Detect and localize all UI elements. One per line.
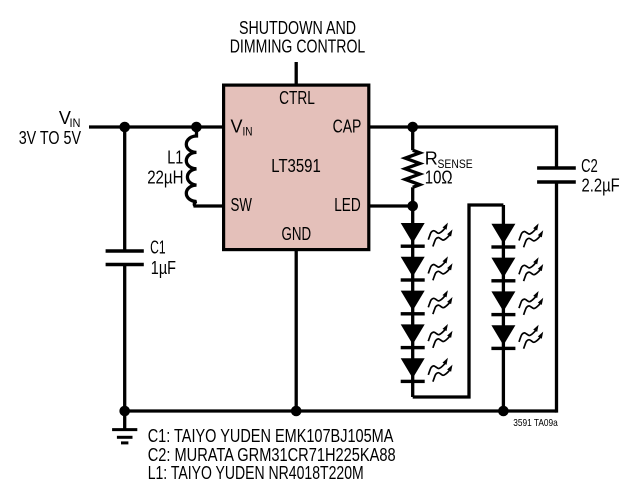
wire C2 top (555, 125, 558, 168)
emission arrows D6 (519, 223, 543, 247)
wire SW (194, 204, 224, 207)
wire C2 bottom (555, 182, 558, 413)
node VIN input label (19, 108, 81, 148)
LED D9 (491, 325, 515, 350)
wire string1 bottom to string2 top (413, 205, 504, 397)
svg-text:22µH: 22µH (147, 168, 183, 188)
resistor RSENSE (405, 150, 420, 187)
wire GND pin (295, 250, 298, 411)
svg-text:GND: GND (282, 224, 312, 244)
svg-text:CAP: CAP (333, 116, 362, 136)
junction dot VIN/L1 (191, 122, 202, 133)
svg-text:3V TO 5V: 3V TO 5V (19, 128, 81, 148)
svg-text:R: R (425, 149, 438, 169)
wire CAP (369, 125, 557, 128)
svg-text:LED: LED (334, 195, 361, 215)
emission arrows D7 (519, 257, 543, 281)
emission arrows D2 (428, 256, 452, 280)
svg-text:3591 TA09a: 3591 TA09a (513, 418, 558, 429)
emission arrows D9 (519, 325, 543, 349)
wire C1 bottom (123, 265, 126, 412)
svg-text:V: V (231, 116, 243, 136)
ground symbol (112, 411, 137, 443)
wire LED string 1 (411, 206, 414, 397)
svg-text:10Ω: 10Ω (425, 167, 453, 187)
emission arrows D5 (428, 358, 452, 382)
junction dot VIN/C1 (119, 122, 130, 133)
LED D3 (401, 291, 425, 316)
LED D1 (401, 223, 425, 248)
emission arrows D3 (428, 290, 452, 314)
LED D7 (491, 258, 515, 283)
LED D5 (401, 358, 425, 383)
wire LED pin (369, 204, 413, 207)
wire LED string 2 (502, 205, 505, 411)
wire C1 top (123, 127, 126, 251)
LED D6 (491, 224, 515, 249)
svg-text:IN: IN (243, 127, 253, 139)
junction dot rail/GND (291, 406, 302, 417)
wire RSENSE top (411, 127, 414, 150)
svg-text:C2: MURATA GRM31CR71H225KA88: C2: MURATA GRM31CR71H225KA88 (148, 445, 396, 465)
svg-text:CTRL: CTRL (279, 88, 315, 108)
svg-text:L1: TAIYO YUDEN NR4018T220M: L1: TAIYO YUDEN NR4018T220M (148, 463, 364, 483)
label L1 22uH (147, 148, 183, 188)
svg-text:L1: L1 (167, 148, 183, 168)
svg-text:C1: C1 (150, 238, 166, 258)
wire VIN input (89, 125, 224, 128)
emission arrows D1 (428, 223, 452, 247)
ground rail wire (125, 409, 557, 412)
label RSENSE 10ohm (425, 149, 473, 188)
junction dot CAP/RSENSE (407, 122, 418, 133)
emission arrows D4 (428, 324, 452, 348)
BOM text (148, 426, 396, 483)
LED D4 (401, 324, 425, 349)
junction dot rail/C1 (119, 406, 130, 417)
junction dot LED/RSENSE (407, 201, 418, 212)
capacitor C2 (537, 168, 576, 182)
capacitor C1 (106, 251, 144, 265)
title text SHUTDOWN AND DIMMING CONTROL (230, 18, 366, 57)
svg-text:C1: TAIYO YUDEN EMK107BJ105MA: C1: TAIYO YUDEN EMK107BJ105MA (148, 426, 394, 446)
label C1 1uF (150, 238, 176, 278)
wire RSENSE bottom (411, 187, 414, 206)
svg-text:C2: C2 (581, 156, 598, 176)
svg-text:SHUTDOWN AND: SHUTDOWN AND (239, 18, 356, 38)
label C2 2.2uF (581, 156, 620, 196)
svg-text:LT3591: LT3591 (271, 156, 321, 176)
LED D2 (401, 257, 425, 282)
junction dot rail/string2 (498, 406, 509, 417)
svg-text:DIMMING CONTROL: DIMMING CONTROL (230, 37, 366, 57)
pin label VIN (231, 116, 253, 138)
svg-text:SW: SW (231, 195, 252, 215)
svg-text:2.2µF: 2.2µF (582, 176, 620, 196)
wire CTRL vertical (295, 62, 298, 85)
LED D8 (491, 291, 515, 316)
svg-text:1µF: 1µF (151, 258, 176, 278)
inductor L1 (186, 127, 196, 206)
IC U1 LT3591 (224, 85, 369, 250)
emission arrows D8 (519, 291, 543, 315)
